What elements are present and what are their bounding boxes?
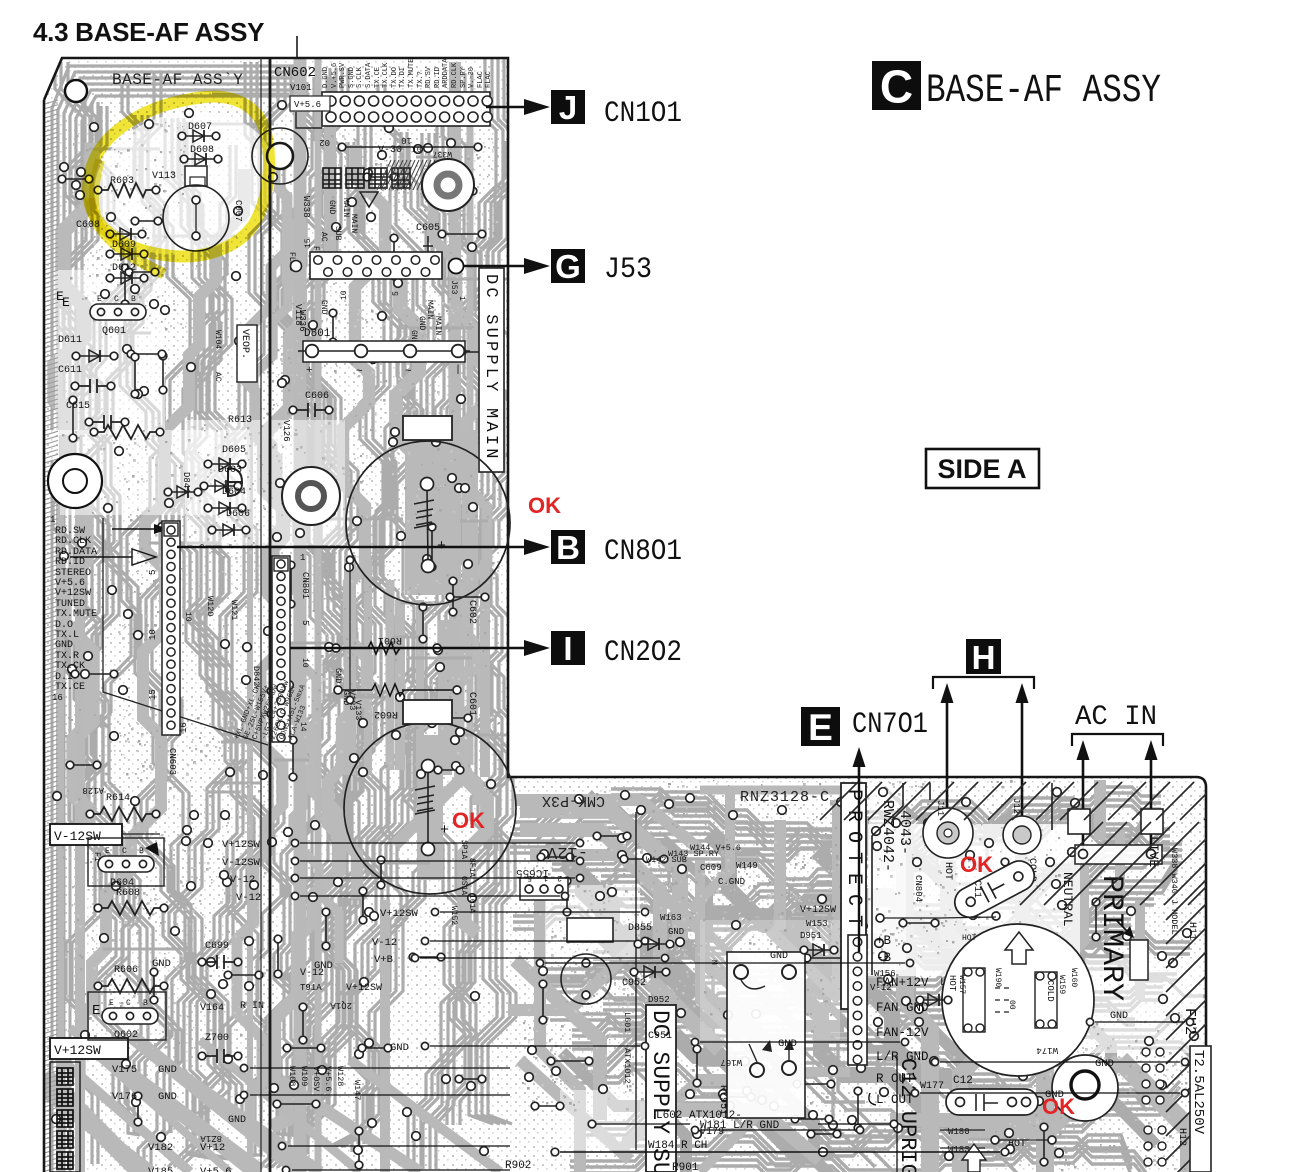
- svg-text:C611: C611: [58, 365, 82, 376]
- svg-text:E: E: [109, 999, 114, 1008]
- svg-text:T2.5AL250V: T2.5AL250V: [1190, 1050, 1206, 1135]
- relay RY951: [727, 952, 805, 1118]
- bottom long lines: [560, 1151, 1000, 1153]
- svg-text:OK: OK: [452, 808, 485, 833]
- svg-text:GND: GND: [778, 1038, 797, 1050]
- svg-text:GND: GND: [668, 927, 684, 937]
- svg-text:D951: D951: [800, 931, 822, 941]
- svg-text:15: 15: [148, 689, 158, 700]
- svg-text:RD.ID: RD.ID: [55, 557, 85, 568]
- svg-text:SP.RY: SP.RY: [460, 66, 468, 88]
- svg-text:W153: W153: [806, 919, 828, 929]
- D855 diodes: [640, 943, 668, 945]
- callout J CN101: [486, 106, 530, 108]
- svg-text:D607: D607: [188, 122, 212, 133]
- svg-text:D952: D952: [648, 995, 670, 1005]
- svg-text:TX.DI: TX.DI: [399, 67, 407, 88]
- svg-text:GND: GND: [1110, 1011, 1128, 1022]
- triangle mark: [360, 192, 378, 207]
- svg-text:S.CLK: S.CLK: [356, 66, 364, 88]
- svg-text:GND: GND: [158, 1091, 177, 1103]
- svg-text:00: 00: [1007, 1000, 1016, 1010]
- svg-text:W157: W157: [957, 975, 966, 994]
- svg-text:V-12: V-12: [870, 983, 892, 993]
- big arrow up-outline into L11: [1005, 932, 1033, 964]
- svg-text:D608: D608: [190, 145, 214, 156]
- svg-text:W152: W152: [449, 906, 458, 925]
- svg-text:VEOP.: VEOP.: [239, 329, 250, 359]
- svg-text:F1: F1: [92, 852, 101, 862]
- svg-text:C609: C609: [700, 863, 722, 873]
- svg-text:10: 10: [401, 135, 412, 145]
- callout B CN801: [177, 546, 530, 548]
- svg-text:TX.CLK: TX.CLK: [382, 62, 390, 88]
- svg-text:D606: D606: [226, 509, 250, 520]
- svg-text:C: C: [122, 847, 127, 856]
- transformer keepout boundary: [872, 783, 1052, 975]
- svg-text:8F1A: 8F1A: [467, 858, 476, 877]
- CN701 arrow stem inside board: [858, 781, 860, 952]
- svg-text:CN804: CN804: [913, 875, 923, 902]
- svg-text:W156: W156: [874, 969, 896, 979]
- SIDE A box: [926, 449, 1039, 488]
- svg-text:GND: GND: [327, 200, 336, 215]
- svg-text:R902: R902: [505, 1160, 531, 1172]
- svg-text:0S1A: 0S1A: [459, 876, 468, 895]
- svg-text:E: E: [92, 1003, 100, 1019]
- svg-text:CN2O2: CN2O2: [604, 636, 682, 670]
- svg-text:R603: R603: [110, 176, 134, 187]
- svg-text:GND: GND: [417, 316, 426, 331]
- svg-text:C12 UPRIG: C12 UPRIG: [895, 1058, 920, 1172]
- svg-text:W181 L/R GND: W181 L/R GND: [700, 1120, 780, 1132]
- svg-text:Q602: Q602: [114, 1030, 138, 1041]
- svg-text:GND: GND: [55, 640, 73, 651]
- svg-text:GND: GND: [152, 958, 171, 970]
- svg-text:E: E: [97, 295, 102, 304]
- svg-text:1: 1: [457, 296, 466, 301]
- svg-text:V.-30: V.-30: [468, 67, 476, 88]
- svg-text:V-12: V-12: [230, 874, 255, 886]
- svg-text:D855: D855: [628, 923, 652, 934]
- svg-text:COLD: COLD: [1045, 980, 1055, 1002]
- svg-text:GND: GND: [228, 1115, 246, 1126]
- svg-text:V+12SW: V+12SW: [346, 983, 382, 994]
- svg-text:W104: W104: [213, 330, 222, 349]
- svg-text:W149: W149: [736, 861, 758, 871]
- svg-text:C951: C951: [648, 1031, 672, 1042]
- svg-text:W108: W108: [287, 1066, 297, 1086]
- svg-text:W144 V+5.6: W144 V+5.6: [690, 843, 741, 853]
- svg-text:W109: W109: [299, 1066, 309, 1086]
- svg-text:H: H: [972, 639, 996, 676]
- svg-text:AC: AC: [213, 372, 222, 382]
- svg-text:C601: C601: [466, 692, 477, 716]
- svg-text:SIDE A: SIDE A: [937, 454, 1026, 484]
- yellow highlighter loop: [88, 97, 269, 257]
- svg-text:MAIN: MAIN: [341, 198, 350, 217]
- svg-text:C007: C007: [233, 200, 243, 222]
- svg-text:ATX1012-: ATX1012-: [622, 1048, 632, 1089]
- svg-text:CN801: CN801: [300, 572, 310, 599]
- svg-text:V+12SW: V+12SW: [800, 905, 836, 916]
- svg-text:C: C: [126, 999, 131, 1008]
- svg-text:TX.MUTE: TX.MUTE: [408, 59, 416, 88]
- svg-text:B: B: [556, 529, 580, 566]
- svg-text:|: |: [455, 364, 461, 376]
- svg-text:+B: +B: [876, 934, 892, 948]
- svg-text:V+12SW: V+12SW: [380, 908, 419, 920]
- svg-text:V118: V118: [293, 304, 303, 326]
- svg-text:AC: AC: [319, 232, 328, 242]
- transistor Q602: [88, 992, 166, 1040]
- CN602 pin name silkscreen: [322, 58, 493, 88]
- svg-text:TX.MUTE: TX.MUTE: [55, 609, 97, 620]
- svg-text:S.GND: S.GND: [348, 67, 356, 88]
- J12 hole: [1003, 816, 1041, 854]
- V-12SW box: [50, 824, 122, 845]
- svg-text:GND: GND: [319, 300, 328, 315]
- svg-text:CMK-P3X: CMK-P3X: [542, 792, 605, 809]
- V supply lines: [222, 839, 669, 966]
- diodes near D951: [806, 949, 832, 951]
- svg-text:4.3 BASE-AF ASSY: 4.3 BASE-AF ASSY: [33, 17, 264, 47]
- svg-text:D605: D605: [222, 445, 246, 456]
- svg-text:L601: L601: [622, 1012, 632, 1032]
- svg-text:C.GND: C.GND: [718, 877, 745, 887]
- connector J53: [291, 252, 443, 279]
- B/letter glyph left: [228, 468, 242, 496]
- svg-text:C605: C605: [416, 223, 440, 234]
- DC SUPPLY MAIN strip: [479, 268, 504, 472]
- svg-text:V182: V182: [148, 1142, 173, 1154]
- svg-text:W159: W159: [1057, 975, 1066, 994]
- svg-text:V+5.6: V+5.6: [294, 100, 321, 110]
- svg-text:1: 1: [50, 515, 55, 525]
- svg-text:16: 16: [52, 693, 63, 703]
- svg-text:10: 10: [183, 612, 192, 622]
- svg-text:V101: V101: [290, 83, 312, 93]
- signal name list: [55, 526, 97, 693]
- svg-text:GND: GND: [314, 960, 333, 972]
- svg-text:R614: R614: [106, 793, 130, 804]
- misc component stubs: [62, 177, 1096, 1165]
- callout G J53: [449, 259, 464, 274]
- svg-text:FLAC: FLAC: [485, 71, 493, 88]
- svg-text:E: E: [105, 847, 110, 856]
- svg-text:RD.CLK: RD.CLK: [451, 62, 459, 88]
- svg-text:V+0SV: V+0SV: [311, 1066, 321, 1092]
- svg-text:RD.CLK: RD.CLK: [55, 536, 91, 547]
- mount hole left: [48, 454, 102, 508]
- svg-text:C615: C615: [66, 401, 90, 412]
- svg-text:5: 5: [392, 291, 401, 296]
- svg-text:D611: D611: [58, 335, 82, 346]
- connector CN201: [272, 556, 290, 742]
- svg-text:W184 R CH: W184 R CH: [648, 1140, 707, 1152]
- svg-text:HOT: HOT: [942, 862, 953, 880]
- svg-text:C606: C606: [305, 391, 329, 402]
- connector CN804 column: [848, 935, 867, 1065]
- svg-text:W121: W121: [229, 600, 239, 620]
- svg-text:Z700: Z700: [205, 1033, 229, 1044]
- svg-text:SP1A: SP1A: [459, 840, 468, 859]
- svg-text:V-30: V-30: [378, 145, 402, 156]
- AC IN pads: [1068, 809, 1090, 834]
- svg-text:C: C: [114, 295, 119, 304]
- PROTECTION strip: [841, 783, 866, 1009]
- callout I CN202: [290, 647, 530, 649]
- svg-text:V-12: V-12: [372, 937, 397, 949]
- svg-text:I: I: [563, 630, 572, 667]
- svg-text:PWR.SV: PWR.SV: [339, 62, 347, 88]
- svg-text:GND: GND: [390, 1042, 409, 1054]
- svg-text:W120: W120: [205, 596, 215, 616]
- mount pad ring: [422, 159, 474, 211]
- svg-text:C: C: [880, 61, 913, 113]
- svg-text:B: B: [143, 999, 148, 1008]
- svg-text:CN1O1: CN1O1: [604, 97, 682, 131]
- svg-text:GND: GND: [770, 951, 788, 962]
- svg-text:W180: W180: [948, 1127, 970, 1137]
- svg-text:V+12SW: V+12SW: [54, 1043, 101, 1058]
- CN804 pin labels: [876, 934, 929, 1107]
- svg-text:V+5.6: V+5.6: [323, 1066, 333, 1092]
- svg-text:W190: W190: [993, 968, 1002, 987]
- small circle + ring bottom right: [1052, 1055, 1118, 1121]
- svg-text:D604: D604: [222, 487, 246, 498]
- svg-text:R602: R602: [374, 708, 398, 719]
- svg-text:GND: GND: [158, 1064, 177, 1076]
- svg-text:J11: J11: [935, 800, 945, 816]
- power big circle L11: [942, 924, 1094, 1076]
- svg-text:A128: A128: [82, 785, 104, 795]
- svg-text:5: 5: [300, 620, 310, 625]
- svg-text:D.GND: D.GND: [322, 67, 330, 88]
- svg-text:R608: R608: [116, 888, 140, 899]
- svg-text:E: E: [56, 289, 64, 304]
- svg-text:10: 10: [340, 290, 349, 300]
- svg-text:H11: H11: [1186, 922, 1197, 940]
- svg-text:ARDDATA: ARDDATA: [442, 58, 450, 88]
- svg-text:10: 10: [148, 629, 158, 640]
- callout H: [966, 639, 1001, 674]
- svg-text:V185: V185: [148, 1166, 173, 1172]
- svg-text:4043-: 4043-: [896, 810, 913, 855]
- svg-text:SUB: SUB: [333, 226, 342, 241]
- svg-text:S.DATA: S.DATA: [365, 62, 373, 88]
- svg-text:W177: W177: [920, 1081, 944, 1092]
- svg-text:W337: W337: [433, 149, 452, 158]
- wire V-30: [342, 146, 478, 148]
- svg-text:5: 5: [148, 570, 158, 575]
- svg-text:CN603: CN603: [167, 748, 177, 775]
- svg-text:MAIN: MAIN: [349, 214, 358, 233]
- DC SUPPLY SUB strip: [646, 1005, 676, 1172]
- svg-text:D842: D842: [251, 666, 261, 686]
- capacitor C007 circle: [163, 185, 229, 251]
- svg-text:V-12SW: V-12SW: [222, 857, 261, 869]
- mount hole top-left: [65, 80, 87, 102]
- svg-text:8Z1A: 8Z1A: [200, 1133, 222, 1143]
- svg-text:15: 15: [304, 238, 313, 248]
- svg-text:GND: GND: [333, 668, 343, 683]
- svg-text:V+12SW: V+12SW: [55, 588, 91, 599]
- hatch patch: [377, 160, 435, 190]
- svg-text:V133: V133: [353, 700, 363, 720]
- bridge D801: [298, 341, 470, 362]
- svg-text:HOT: HOT: [962, 934, 977, 943]
- svg-text:V126: V126: [281, 420, 291, 442]
- svg-text:HOT: HOT: [947, 975, 957, 992]
- svg-text:DC SUPPLY MAIN: DC SUPPLY MAIN: [481, 274, 500, 462]
- svg-text:V175: V175: [112, 1064, 137, 1076]
- halftone speckle: [60, 121, 1201, 1171]
- svg-text:H12: H12: [1176, 1128, 1187, 1146]
- svg-text:B: B: [131, 295, 136, 304]
- fuse pads column: [1142, 1048, 1166, 1166]
- svg-text:J: J: [559, 89, 577, 126]
- GND lines bottom-left: [112, 1064, 510, 1172]
- svg-text:CN8O1: CN8O1: [604, 535, 682, 569]
- GND lines mid-bottom: [152, 958, 1189, 1101]
- svg-text:BASE-AF ASSY: BASE-AF ASSY: [926, 69, 1161, 114]
- svg-text:RWZ4042-: RWZ4042-: [879, 800, 896, 872]
- svg-text:R IN: R IN: [240, 1001, 264, 1012]
- svg-text:OK: OK: [528, 493, 561, 518]
- svg-text:V+5.6: V+5.6: [200, 1166, 232, 1172]
- svg-text:FLAC: FLAC: [477, 71, 485, 88]
- svg-text:W160: W160: [1069, 968, 1078, 987]
- svg-text:V-12: V-12: [236, 892, 261, 904]
- svg-text:MAIN: MAIN: [433, 316, 442, 335]
- svg-text:C602: C602: [466, 600, 477, 624]
- svg-text:FAN-12V: FAN-12V: [876, 1026, 929, 1040]
- svg-text:TX.CE: TX.CE: [55, 682, 85, 693]
- callout E CN701: [801, 707, 840, 746]
- svg-text:J53: J53: [604, 253, 652, 287]
- capacitor C11 (tilted): [950, 856, 1040, 923]
- svg-text:RNZ3128-C: RNZ3128-C: [740, 789, 830, 806]
- svg-text:TX.CK: TX.CK: [55, 661, 85, 672]
- svg-text:CN7O1: CN7O1: [852, 708, 928, 742]
- capacitor C602 (big): [344, 722, 516, 894]
- svg-text:TX.?: TX.?: [417, 71, 425, 88]
- svg-text:+: +: [306, 365, 313, 377]
- svg-text:C699: C699: [205, 941, 229, 952]
- V+12SW box: [50, 1038, 128, 1059]
- svg-text:AC IN: AC IN: [1075, 702, 1157, 733]
- svg-text:+: +: [440, 822, 449, 839]
- transistor D604: [88, 838, 164, 886]
- svg-text:V+B: V+B: [374, 954, 393, 966]
- kanji silkscreen block: [323, 168, 341, 188]
- svg-text:W147: W147: [352, 1080, 362, 1100]
- japanese vertical note: [57, 1068, 73, 1169]
- svg-text:PRIMARY: PRIMARY: [1094, 875, 1128, 1001]
- svg-text:D603: D603: [218, 465, 242, 476]
- rotated net name block: [233, 679, 308, 741]
- svg-text:V.+5.6: V.+5.6: [331, 63, 339, 88]
- svg-text:B: B: [139, 847, 144, 856]
- svg-text:V113: V113: [152, 171, 176, 182]
- long vertical bus lines: [260, 58, 262, 1172]
- svg-text:GND: GND: [1045, 1089, 1064, 1101]
- svg-text:GND: GND: [1095, 1058, 1114, 1070]
- svg-text:W167: W167: [720, 1057, 742, 1067]
- svg-text:TX.CE: TX.CE: [374, 67, 382, 88]
- svg-text:R901: R901: [672, 1162, 699, 1172]
- svg-text:10: 10: [300, 658, 309, 668]
- svg-text:E: E: [808, 707, 833, 748]
- VEOP strip: [237, 325, 257, 382]
- svg-text:RD.ID: RD.ID: [434, 67, 442, 88]
- svg-text:V176: V176: [112, 1091, 137, 1103]
- svg-text:J53: J53: [449, 280, 458, 295]
- capacitor C601 (big): [346, 441, 510, 605]
- svg-text:V164: V164: [200, 1003, 224, 1014]
- svg-text:C11: C11: [971, 880, 982, 898]
- svg-text:G: G: [555, 248, 581, 285]
- svg-text:OK: OK: [960, 852, 993, 877]
- callout C BASE-AF ASSY: [872, 61, 921, 110]
- small box + circle component: [567, 918, 613, 942]
- svg-text:02: 02: [319, 137, 330, 147]
- svg-text:W174: W174: [1036, 1045, 1058, 1055]
- svg-text:10: 10: [412, 146, 422, 155]
- svg-text:V-12SW: V-12SW: [54, 829, 101, 844]
- diagonal hatch isolation boundary: [820, 782, 1271, 1172]
- J11 hole: [923, 808, 973, 858]
- svg-text:R613: R613: [228, 415, 252, 426]
- svg-text:W163: W163: [660, 913, 682, 923]
- svg-text:T91A: T91A: [300, 983, 322, 993]
- svg-text:W338: W338: [301, 196, 311, 218]
- svg-text:C952: C952: [622, 978, 646, 989]
- svg-text:TX.DO: TX.DO: [391, 67, 399, 88]
- svg-text:R606: R606: [114, 965, 138, 976]
- svg-text:2Q1A: 2Q1A: [330, 1000, 352, 1010]
- svg-text:D801: D801: [304, 328, 331, 340]
- svg-text:16: 16: [179, 722, 189, 733]
- svg-text:BASE-AF ASS`Y: BASE-AF ASS`Y: [112, 71, 243, 89]
- connector CN603: [162, 521, 180, 735]
- svg-text:Q601: Q601: [102, 326, 126, 337]
- svg-text:V+12SW: V+12SW: [222, 839, 261, 851]
- svg-text:~: ~: [405, 366, 412, 378]
- svg-text:RD.SV: RD.SV: [425, 66, 433, 88]
- svg-text:1: 1: [300, 553, 305, 563]
- svg-text:W128: W128: [335, 1066, 345, 1086]
- svg-text:C12: C12: [953, 1075, 973, 1087]
- svg-text:161A: 161A: [467, 894, 476, 913]
- pointer arrow into CN603: [112, 528, 158, 530]
- svg-text:CN602: CN602: [274, 65, 316, 81]
- svg-text:~: ~: [356, 366, 363, 378]
